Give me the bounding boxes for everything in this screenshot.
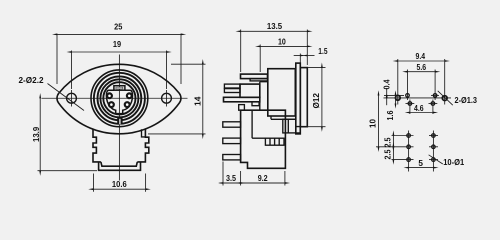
dim 10.6 <box>93 174 95 192</box>
dim 14 <box>171 63 206 65</box>
dim 13.5 <box>240 30 242 73</box>
dim 4.6 <box>410 112 433 114</box>
contact finger 2 <box>224 89 240 93</box>
svg-text:10: 10 <box>369 119 378 128</box>
pin row B <box>408 102 412 106</box>
hole column centerlines <box>397 59 399 105</box>
dim 10 <box>259 45 261 73</box>
dim Ø12 <box>307 67 325 69</box>
svg-text:5.6: 5.6 <box>417 63 427 72</box>
mounting hole right <box>162 93 172 103</box>
pin lower-left <box>109 102 114 107</box>
body column <box>260 82 268 111</box>
dim 5.6 <box>408 71 436 73</box>
svg-text:1.5: 1.5 <box>318 47 328 56</box>
svg-text:14: 14 <box>193 96 202 106</box>
svg-text:19: 19 <box>113 40 122 49</box>
body right edge with notches <box>137 129 149 162</box>
small step under bar <box>252 102 259 106</box>
base top tab <box>239 105 245 111</box>
top ground tab <box>241 74 268 79</box>
dim 25 <box>56 34 58 85</box>
flange plate <box>296 63 301 134</box>
dim 13.9 <box>38 170 98 172</box>
pcb pin 1 <box>223 122 241 127</box>
shield can <box>268 69 296 116</box>
svg-text:0.4: 0.4 <box>383 79 392 89</box>
pin upper-right <box>127 93 132 98</box>
hatched connector rect <box>265 138 284 145</box>
plastic base <box>241 110 286 168</box>
svg-text:10: 10 <box>278 37 286 46</box>
pin row E <box>407 158 411 162</box>
svg-text:2.5: 2.5 <box>384 149 393 159</box>
body foot outer skirt <box>99 162 141 170</box>
dim 19 <box>71 51 73 90</box>
horizontal centerline <box>384 97 452 99</box>
svg-text:2.5: 2.5 <box>384 137 393 147</box>
dim 1.6 <box>395 95 397 103</box>
socket keyway top <box>114 86 125 91</box>
label 2-Ø1.3 with leader <box>438 91 453 105</box>
dim 9.4 <box>398 60 445 62</box>
pin row C <box>407 134 411 138</box>
lower step box <box>283 119 296 133</box>
row ticks <box>384 94 404 96</box>
dim 5 <box>409 167 434 169</box>
svg-text:2-Ø1.3: 2-Ø1.3 <box>455 96 478 105</box>
svg-text:4.6: 4.6 <box>414 104 424 113</box>
svg-text:2-Ø2.2: 2-Ø2.2 <box>19 76 44 85</box>
svg-text:Ø12: Ø12 <box>312 93 321 109</box>
pcb pin 2 <box>223 138 241 144</box>
contact finger 1 <box>224 84 240 88</box>
svg-text:5: 5 <box>418 159 423 168</box>
can bottom line <box>271 118 296 120</box>
svg-text:13.9: 13.9 <box>32 126 41 142</box>
bottom keyway slot (hatched) <box>117 117 122 125</box>
pcb pin 3 <box>223 155 241 160</box>
svg-text:1.6: 1.6 <box>386 110 395 120</box>
connector circles <box>91 70 148 127</box>
dim 1.5 <box>299 54 301 64</box>
dim 2.5 / 2.5 <box>392 136 394 147</box>
body top-right tab <box>142 129 146 137</box>
big hole left (Ø1.3) <box>395 95 400 100</box>
pin row A <box>406 94 410 98</box>
svg-text:25: 25 <box>114 22 123 31</box>
big hole right (Ø1.3) <box>442 96 447 101</box>
long contact bar <box>224 97 260 102</box>
svg-text:9.4: 9.4 <box>416 52 426 61</box>
base inner lines <box>251 111 253 139</box>
horizontal centerline <box>42 97 188 99</box>
svg-text:3.5: 3.5 <box>226 174 236 183</box>
pin lower-right <box>125 102 130 107</box>
socket opening outline <box>106 90 132 113</box>
dim 10 (vertical) <box>378 95 380 146</box>
body foot inner <box>101 162 137 166</box>
contact block <box>240 84 260 97</box>
svg-text:10-Ø1: 10-Ø1 <box>443 158 464 167</box>
dim 3.5 / 9.2 <box>222 162 224 186</box>
vertical centerline <box>118 55 120 181</box>
mounting hole left <box>67 93 77 103</box>
label 10-Ø1 with leader <box>429 155 443 164</box>
svg-text:13.5: 13.5 <box>267 22 283 31</box>
barrel <box>300 68 307 127</box>
dim 0.4 <box>386 88 388 95</box>
body left edge with notches <box>93 129 101 162</box>
svg-text:9.2: 9.2 <box>258 174 268 183</box>
pin row D <box>407 145 411 149</box>
pin upper-left <box>107 93 112 98</box>
svg-text:10.6: 10.6 <box>112 180 127 189</box>
flange outline <box>57 64 181 134</box>
